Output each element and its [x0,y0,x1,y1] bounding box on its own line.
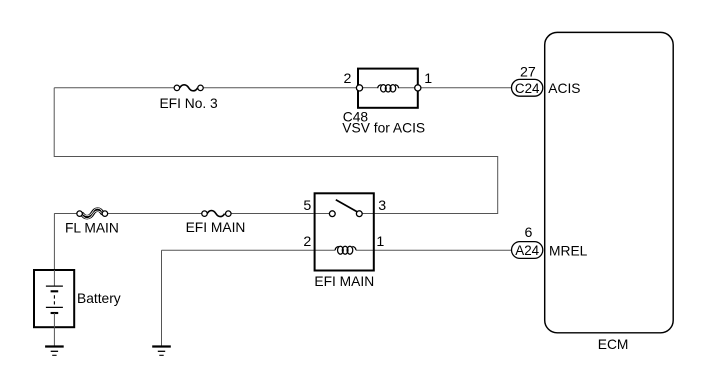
svg-text:27: 27 [520,65,536,81]
svg-text:EFI MAIN: EFI MAIN [314,274,374,289]
svg-text:ACIS: ACIS [548,81,580,96]
svg-text:3: 3 [378,198,386,214]
svg-text:FL MAIN: FL MAIN [65,221,119,236]
svg-text:EFI No. 3: EFI No. 3 [159,96,218,111]
svg-text:2: 2 [303,234,311,250]
svg-text:5: 5 [303,198,311,214]
svg-text:6: 6 [525,225,533,241]
svg-text:1: 1 [424,71,432,87]
svg-text:1: 1 [376,234,384,250]
svg-text:C24: C24 [515,81,540,96]
svg-text:MREL: MREL [549,244,588,259]
svg-text:ECM: ECM [598,337,629,352]
svg-text:Battery: Battery [77,291,121,306]
svg-text:VSV for ACIS: VSV for ACIS [342,121,425,136]
svg-text:EFI MAIN: EFI MAIN [186,220,246,235]
svg-text:2: 2 [344,71,352,87]
svg-text:A24: A24 [515,243,539,258]
